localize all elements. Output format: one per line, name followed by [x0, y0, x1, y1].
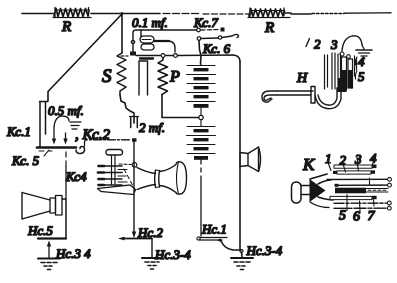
wire battery top [199, 41, 201, 65]
wire speaker to ground line [62, 199, 66, 238]
wire Kc.4 vertical [65, 152, 67, 166]
arrow down x54 [53, 127, 55, 139]
resistor R2 [248, 8, 291, 18]
svg-text:Нс.3-4: Нс.3-4 [154, 247, 191, 262]
wire top rail mid [91, 13, 160, 15]
junction circle on vertical [132, 163, 137, 168]
wire P to battery tap [162, 95, 199, 118]
svg-text:Кс4: Кс4 [65, 169, 87, 184]
blades [325, 55, 328, 89]
arrow on Hc.1 wire [216, 239, 221, 243]
handle [292, 182, 302, 203]
svg-text:7: 7 [368, 209, 376, 224]
speaker on right column [240, 147, 261, 172]
wire vertical from rail junction [121, 14, 123, 54]
switch bar Kc.5 [37, 146, 76, 149]
svg-text:5: 5 [358, 69, 365, 84]
arc to ground [342, 36, 362, 51]
number tick marks K [329, 164, 374, 173]
svg-text:R: R [61, 19, 71, 35]
black triangle plug tip [310, 179, 326, 202]
junction node on rail [121, 12, 124, 15]
wire curve to ground [221, 241, 241, 251]
ground (Hc.2) [142, 258, 162, 269]
wire lower rail to right column [178, 55, 241, 62]
svg-text:P: P [169, 69, 180, 86]
svg-text:0.1 mf.: 0.1 mf. [132, 15, 168, 30]
bolt cap [106, 150, 123, 156]
base wedge [98, 185, 136, 195]
grid condenser assembly 0.1mf [121, 30, 177, 57]
svg-text:Кс.7: Кс.7 [193, 15, 218, 30]
contact strips [327, 165, 391, 211]
horn body [137, 168, 156, 174]
svg-text:1: 1 [325, 151, 332, 166]
hook at left [264, 95, 277, 100]
capacitor Kc.1 0.5mf [40, 102, 48, 148]
labels 1 2 3 4 5 (H) [306, 39, 310, 47]
capacitor block (rect) [139, 59, 153, 96]
coil S [117, 53, 126, 95]
svg-text:R: R [264, 20, 274, 36]
svg-text:S: S [102, 66, 112, 87]
svg-text:К: К [302, 155, 316, 174]
ground Hc.3-4 (left) [38, 259, 60, 270]
wire battery bottom [200, 160, 202, 236]
svg-text:2 mf.: 2 mf. [139, 120, 165, 135]
svg-text:H: H [296, 71, 308, 86]
switch Kc.6 [197, 34, 238, 40]
wire top rail left [22, 13, 54, 15]
svg-text:4: 4 [370, 151, 377, 166]
K assembly [292, 159, 392, 212]
hook contact Kc.2 [76, 147, 85, 154]
wire Kc.7 line [141, 29, 196, 31]
wire S to 2mf [120, 95, 134, 123]
wire top rail right [291, 13, 311, 15]
resistor R1 [53, 8, 91, 18]
battery B1 lower [187, 120, 216, 160]
T plate [311, 87, 315, 104]
svg-text:6: 6 [353, 210, 360, 225]
svg-text:, Кс.2: , Кс.2 [75, 127, 110, 143]
wire right column [239, 62, 241, 249]
svg-text:Кс. 5: Кс. 5 [11, 153, 40, 168]
wire receiver vertical [133, 141, 135, 233]
arrow up to ground stem [48, 245, 50, 258]
fork outline [310, 174, 327, 179]
small ground top right [356, 45, 372, 59]
svg-text:Нс.3 4: Нс.3 4 [55, 246, 91, 261]
ground (right column) [231, 252, 253, 270]
svg-text:Нс.3-4: Нс.3-4 [246, 243, 283, 258]
coil P [158, 58, 168, 95]
svg-text:0.5 mf.: 0.5 mf. [48, 103, 84, 118]
wire under Hc.2 [124, 238, 152, 240]
trimmer arc + fan [54, 116, 81, 129]
wire diagonal [48, 15, 121, 101]
phone receiver Hc.2 [98, 150, 187, 195]
capacitor 2mf [130, 117, 139, 128]
U curve to blades [315, 88, 341, 109]
svg-text:3: 3 [330, 37, 338, 52]
svg-text:3: 3 [354, 152, 362, 167]
svg-text:Кс. 6: Кс. 6 [202, 41, 231, 56]
svg-text:Нс.5: Нс.5 [27, 223, 53, 238]
svg-text:2: 2 [314, 37, 321, 52]
svg-text:Нс.1: Нс.1 [201, 222, 227, 237]
battery tap junction [199, 115, 203, 119]
battery B1 upper [187, 64, 216, 116]
dashed link coil to wire [119, 163, 131, 166]
svg-text:2: 2 [340, 153, 347, 168]
diagonal dash inside body [124, 169, 133, 186]
rod [277, 91, 313, 95]
speaker Hc.5 [22, 193, 62, 220]
wire y140 rail (Kc.2 to 2mf junction) [85, 140, 132, 146]
svg-text:5: 5 [339, 209, 346, 224]
coil strokes [98, 166, 127, 185]
wire under Hc.1 [199, 238, 227, 241]
H assembly [262, 36, 372, 109]
arrow down x65 [65, 133, 67, 139]
svg-text:4: 4 [358, 54, 365, 69]
svg-text:Кс.1: Кс.1 [6, 124, 31, 139]
